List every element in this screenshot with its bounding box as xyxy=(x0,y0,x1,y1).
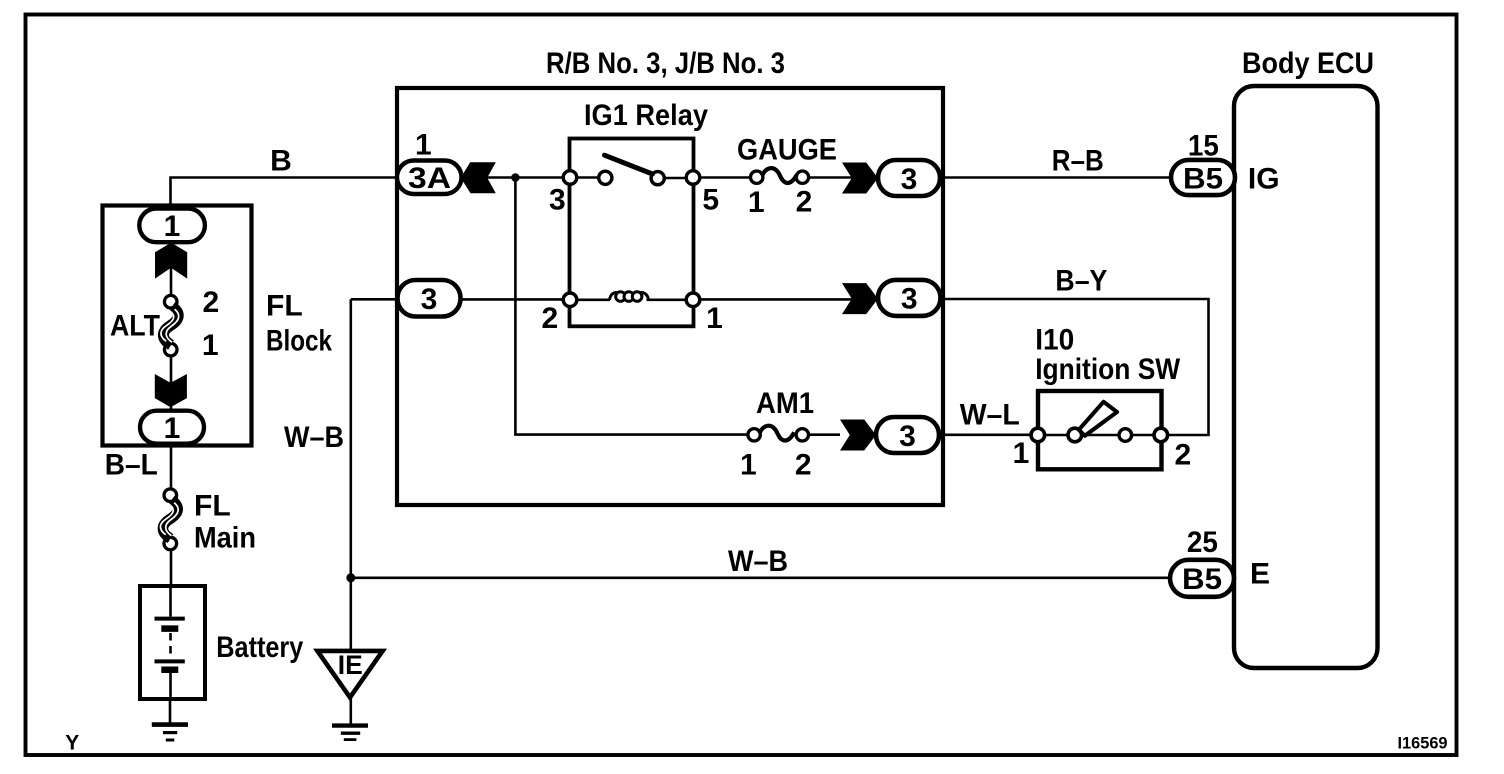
wire relay contact row xyxy=(570,176,693,179)
svg-text:Y: Y xyxy=(65,732,79,755)
svg-text:W–L: W–L xyxy=(960,399,1020,432)
relay contact circle b xyxy=(651,172,664,185)
connector B5 pin15 oval xyxy=(1171,160,1235,195)
ignition switch contact circle xyxy=(1119,429,1132,442)
svg-text:IG1 Relay: IG1 Relay xyxy=(584,99,708,132)
ground IE stem xyxy=(349,698,352,725)
relay coil pin 2 circle xyxy=(563,293,577,307)
svg-text:3: 3 xyxy=(901,163,918,196)
ignition switch pivot circle xyxy=(1068,428,1082,442)
svg-text:3: 3 xyxy=(899,420,916,453)
arrow left at 3A xyxy=(461,162,496,193)
svg-text:Main: Main xyxy=(194,522,256,555)
svg-text:B–Y: B–Y xyxy=(1055,265,1107,298)
connector 1 oval FL bottom xyxy=(140,411,204,444)
fusible link FL Main circles xyxy=(164,489,177,502)
wire B-Y run xyxy=(940,299,1209,435)
svg-text:B–L: B–L xyxy=(105,449,158,482)
connector 3 oval row3 right xyxy=(876,417,939,453)
wire W-B to ECU E xyxy=(351,576,1170,579)
ground battery symbol xyxy=(152,725,188,740)
fuse GAUGE element xyxy=(762,168,797,183)
ground IE symbol xyxy=(332,726,368,740)
wire connector 3 to coil pin 2 xyxy=(461,298,571,301)
svg-text:B: B xyxy=(270,144,292,177)
svg-text:1: 1 xyxy=(164,412,181,445)
Body ECU outline xyxy=(1234,86,1378,668)
ignition switch pin 1 circle xyxy=(1031,428,1045,442)
svg-text:2: 2 xyxy=(541,302,558,335)
FL Block box xyxy=(103,206,252,446)
connector 3A oval xyxy=(397,161,462,195)
svg-text:2: 2 xyxy=(796,186,813,219)
svg-text:FL: FL xyxy=(194,489,231,522)
svg-text:B5: B5 xyxy=(1183,162,1223,195)
svg-text:3: 3 xyxy=(901,283,918,316)
relay pin 5 circle xyxy=(686,171,700,185)
svg-text:2: 2 xyxy=(1175,438,1192,471)
svg-text:W–B: W–B xyxy=(284,421,344,454)
fusible link FL Main element xyxy=(160,500,178,539)
wire W-B vertical xyxy=(349,299,352,651)
arrow right row1 xyxy=(842,163,878,194)
wire relay pin5 to GAUGE fuse xyxy=(693,176,751,179)
svg-text:1: 1 xyxy=(415,128,432,161)
fusible link ALT element xyxy=(161,307,179,346)
relay box IG1 xyxy=(570,139,694,327)
svg-text:B5: B5 xyxy=(1182,563,1222,596)
arrow right row2 xyxy=(842,283,878,314)
junction block R/B No.3 box xyxy=(397,88,943,505)
wire coil pin1 to connector 3 xyxy=(693,298,878,301)
svg-text:IE: IE xyxy=(338,650,363,680)
svg-text:5: 5 xyxy=(702,184,719,217)
connector 3 oval row1 right xyxy=(878,160,940,196)
ground IE triangle xyxy=(317,651,382,698)
svg-text:I16569: I16569 xyxy=(1398,734,1448,752)
svg-text:GAUGE: GAUGE xyxy=(737,134,837,167)
svg-text:3: 3 xyxy=(421,283,438,316)
wire W-L to ignition switch xyxy=(939,433,1038,436)
relay coil winding xyxy=(610,292,649,302)
svg-text:I10: I10 xyxy=(1035,324,1074,357)
ignition switch key lever xyxy=(1079,402,1117,436)
wire R-B to ECU xyxy=(940,176,1171,179)
svg-text:AM1: AM1 xyxy=(756,387,814,420)
connector B5 pin25 oval xyxy=(1170,560,1234,597)
wire AM1 fuse to connector 3 xyxy=(809,433,840,436)
svg-text:E: E xyxy=(1250,558,1270,591)
svg-text:R/B No. 3, J/B No. 3: R/B No. 3, J/B No. 3 xyxy=(546,47,785,80)
ignition switch pin 2 circle xyxy=(1154,428,1168,442)
battery ground wire xyxy=(169,699,172,723)
wire coil row xyxy=(570,298,693,301)
connector 3 oval row2 right xyxy=(878,280,941,316)
svg-text:15: 15 xyxy=(1188,130,1219,163)
fuse AM1 circles xyxy=(748,429,760,441)
arrow right row3 xyxy=(840,420,876,451)
svg-text:Block: Block xyxy=(266,324,332,357)
svg-text:ALT: ALT xyxy=(110,310,160,343)
svg-text:IG: IG xyxy=(1248,163,1280,196)
wire GAUGE fuse to connector 3 xyxy=(808,176,878,179)
wire W-B to connector 3 row2 xyxy=(351,298,398,301)
relay pin 3 circle xyxy=(563,171,577,185)
svg-text:1: 1 xyxy=(202,329,219,362)
wire ALT to battery xyxy=(170,242,173,586)
svg-text:Battery: Battery xyxy=(216,631,303,664)
battery internals xyxy=(155,586,185,699)
fusible link ALT circles xyxy=(164,295,177,308)
relay coil pin 1 circle xyxy=(686,293,700,307)
svg-text:1: 1 xyxy=(1013,437,1030,470)
svg-text:FL: FL xyxy=(266,290,303,323)
wire 3A to relay pin 3 xyxy=(462,176,570,179)
svg-text:1: 1 xyxy=(740,448,757,481)
wire B horizontal xyxy=(171,178,398,209)
connector 3 oval row2 left xyxy=(398,280,461,317)
svg-text:1: 1 xyxy=(748,186,765,219)
svg-text:W–B: W–B xyxy=(728,545,788,578)
svg-text:1: 1 xyxy=(706,302,723,335)
wire AM1 branch vertical xyxy=(515,178,748,435)
svg-text:Body ECU: Body ECU xyxy=(1242,47,1374,80)
relay switch blade xyxy=(605,155,653,174)
fuse AM1 element xyxy=(759,426,794,441)
wire inside ignition switch xyxy=(1038,434,1162,437)
svg-text:2: 2 xyxy=(203,286,220,319)
relay contact circle a xyxy=(599,171,612,184)
battery box xyxy=(140,586,205,699)
svg-text:Ignition SW: Ignition SW xyxy=(1035,353,1181,386)
arrow down FL block xyxy=(155,374,187,407)
svg-text:1: 1 xyxy=(164,210,181,243)
ignition switch box I10 xyxy=(1038,391,1162,469)
node junction dot W-B xyxy=(346,573,355,582)
svg-text:3A: 3A xyxy=(408,162,451,195)
svg-text:3: 3 xyxy=(549,184,566,217)
arrow up FL block xyxy=(155,243,187,279)
fuse GAUGE circles xyxy=(751,171,763,183)
connector 1 oval FL top xyxy=(139,209,205,243)
svg-text:2: 2 xyxy=(795,448,812,481)
svg-text:R–B: R–B xyxy=(1052,144,1104,177)
svg-text:25: 25 xyxy=(1187,526,1218,559)
node junction dot row1 xyxy=(511,173,520,182)
